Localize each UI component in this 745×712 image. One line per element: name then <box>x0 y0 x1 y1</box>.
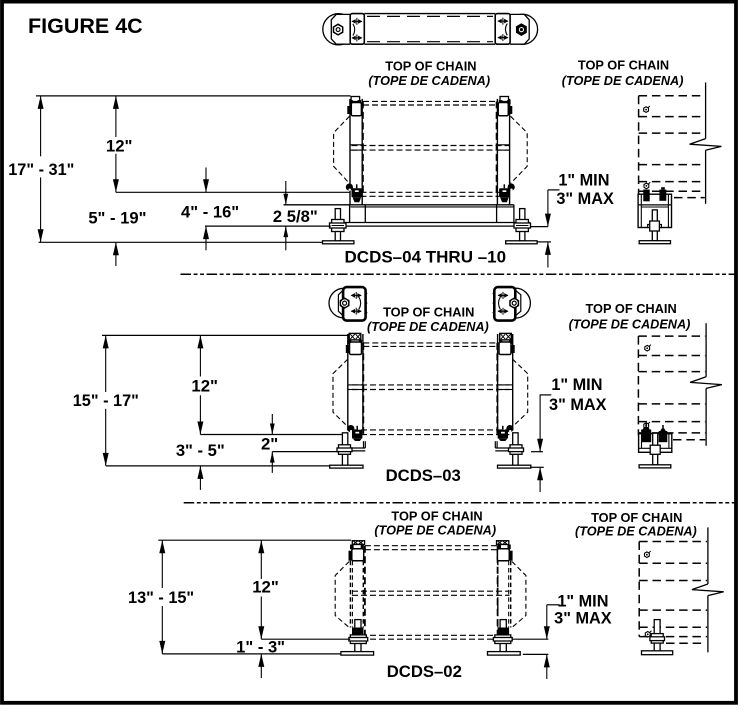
svg-text:(TOPE DE CADENA): (TOPE DE CADENA) <box>374 524 496 538</box>
side view mounting foot (section 1) <box>638 182 671 243</box>
svg-text:12": 12" <box>191 376 218 395</box>
right post (section 2) <box>498 334 513 431</box>
svg-text:1" MIN: 1" MIN <box>557 592 608 610</box>
svg-text:3" MAX: 3" MAX <box>556 190 614 208</box>
phantom wing left (section 2) <box>333 359 348 427</box>
top view clamp right (DCDS-03) <box>493 287 531 321</box>
svg-text:(TOPE DE CADENA): (TOPE DE CADENA) <box>368 74 490 88</box>
right post (section 3, hidden lines) <box>498 561 511 628</box>
left post (section 2) <box>348 334 363 431</box>
svg-text:12": 12" <box>252 578 279 597</box>
wall line with break (section 1) <box>690 83 722 204</box>
screw marker (section 2 side) <box>645 345 651 351</box>
phantom pan outline (section 1, dashed) <box>352 101 510 197</box>
svg-text:(TOPE DE CADENA): (TOPE DE CADENA) <box>575 524 697 538</box>
screw marker lower (section 3 side) <box>645 631 651 637</box>
side view pan (section 3, dashed) <box>639 542 707 644</box>
dimension 1in MIN 3in MAX (section 2) <box>530 376 606 492</box>
bottom clamp right (section 2) <box>498 425 514 441</box>
svg-text:4" - 16": 4" - 16" <box>181 203 239 222</box>
svg-text:1" - 3": 1" - 3" <box>236 637 285 656</box>
dimension 4in-16in (section 1) <box>181 168 331 251</box>
phantom pan outline (section 3, dashed) <box>352 546 510 640</box>
top clamp right (section 2) <box>499 333 515 354</box>
foot bracket left (section 2) <box>339 441 366 451</box>
svg-text:3" MAX: 3" MAX <box>554 610 612 628</box>
svg-text:FIGURE 4C: FIGURE 4C <box>28 14 143 38</box>
phantom wing left (section 1) <box>334 116 350 183</box>
svg-text:17" - 31": 17" - 31" <box>8 161 74 179</box>
jack foot left (section 3) <box>341 620 374 656</box>
dimension 12in (section 3) <box>252 540 279 639</box>
svg-text:TOP OF CHAIN: TOP OF CHAIN <box>391 509 482 524</box>
top view: conveyor section DCDS-04 (plan) <box>323 14 538 45</box>
svg-text:2": 2" <box>261 435 278 454</box>
svg-text:DCDS–02: DCDS–02 <box>387 662 462 681</box>
jack foot right (section 1) <box>506 209 537 244</box>
bottom clamp right (section 1) <box>499 184 515 203</box>
top view clamp left (DCDS-03) <box>329 287 367 321</box>
svg-text:TOP OF CHAIN: TOP OF CHAIN <box>383 305 474 320</box>
floor line (section 3) <box>162 653 341 655</box>
svg-text:15" - 17": 15" - 17" <box>73 392 139 410</box>
dimension 12in (section 1) <box>106 96 133 192</box>
svg-text:3" MAX: 3" MAX <box>549 396 607 414</box>
svg-text:DCDS–03: DCDS–03 <box>386 466 461 485</box>
svg-text:DCDS–04 THRU –10: DCDS–04 THRU –10 <box>345 248 507 267</box>
svg-text:(TOPE DE CADENA): (TOPE DE CADENA) <box>562 74 684 88</box>
side view mounting foot (section 2) <box>639 422 672 468</box>
phantom wing right (section 2) <box>513 359 528 427</box>
svg-text:2 5/8": 2 5/8" <box>273 207 318 226</box>
svg-text:12": 12" <box>106 137 133 156</box>
dimension 15in-17in (section 2) <box>73 335 139 466</box>
svg-text:1" MIN: 1" MIN <box>558 171 609 189</box>
top clamp right (section 3) <box>497 541 513 561</box>
dimension 2 5-8in (section 1) <box>273 181 318 250</box>
svg-text:(TOPE DE CADENA): (TOPE DE CADENA) <box>367 320 489 334</box>
side view pan (section 2, dashed) <box>638 336 705 440</box>
phantom wing right (section 3) <box>512 562 526 628</box>
dimension 13in-15in (section 3) <box>128 540 194 654</box>
dimension 12in (section 2) <box>191 335 218 434</box>
svg-text:3" - 5": 3" - 5" <box>176 441 225 460</box>
top clamp right (section 1) <box>498 97 512 116</box>
leader: bottom of chain line (section 2) <box>200 434 342 436</box>
section separator 1 (dash-dot) <box>181 273 738 275</box>
leader: top of chain line (section 1) <box>36 95 351 97</box>
dimension 17in-31in (section 1) <box>8 96 74 242</box>
leader: bottom of chain line (section 1) <box>116 191 350 193</box>
dimension 1in MIN 3in MAX (section 3) <box>512 592 612 679</box>
dimension 1in MIN 3in MAX (section 1) <box>531 171 614 267</box>
phantom pan outline (section 2, dashed) <box>352 343 509 435</box>
jack foot right (section 3) <box>488 620 521 656</box>
top clamp left (section 2) <box>346 333 362 354</box>
screw marker upper (section 3 side) <box>645 551 651 557</box>
left post (section 3, hidden lines) <box>350 561 363 628</box>
left post (section 1) <box>350 99 362 205</box>
phantom wing left (section 3) <box>335 562 349 628</box>
dimension 5in-19in (section 1) <box>88 209 146 267</box>
leader: top of chain line (section 3) <box>158 539 351 541</box>
side view mounting foot (section 3) <box>642 620 673 655</box>
section separator 2 (dash-dot) <box>184 502 737 504</box>
leader: top of chain line (section 2) <box>102 334 349 336</box>
foot bracket right (section 2) <box>495 441 522 451</box>
svg-text:TOP OF CHAIN: TOP OF CHAIN <box>385 59 476 74</box>
dimension 3in-5in (section 2) <box>176 441 225 490</box>
bottom clamp left (section 2) <box>347 425 362 441</box>
jack foot left (section 2) <box>330 433 363 468</box>
screw marker (section 1 side) <box>644 106 650 112</box>
svg-text:(TOPE DE CADENA): (TOPE DE CADENA) <box>569 317 691 331</box>
top clamp left (section 1) <box>347 97 361 116</box>
wall line with break (section 3) <box>692 527 724 652</box>
svg-text:13" - 15": 13" - 15" <box>128 589 194 607</box>
floor line (section 1) <box>39 241 323 243</box>
leader: bottom of pan line (section 3) <box>261 638 350 640</box>
wall line with break (section 2) <box>690 323 722 446</box>
cross channel (section 1) <box>284 205 530 226</box>
top clamp left (section 3) <box>349 541 365 561</box>
bottom clamp left (section 1) <box>346 184 362 203</box>
dimension 1in-3in (section 3) <box>236 637 285 678</box>
right post (section 1) <box>497 99 509 205</box>
jack foot right (section 2) <box>498 433 531 468</box>
jack foot left (section 1) <box>323 209 354 244</box>
phantom wing right (section 1) <box>511 116 528 183</box>
side view pan (section 1, dashed) <box>639 96 705 198</box>
svg-text:TOP OF CHAIN: TOP OF CHAIN <box>591 510 682 525</box>
svg-text:TOP OF CHAIN: TOP OF CHAIN <box>578 58 669 73</box>
floor line (section 2) <box>106 465 330 467</box>
svg-text:TOP OF CHAIN: TOP OF CHAIN <box>585 301 676 316</box>
dimension 2in (section 2) <box>261 414 339 473</box>
svg-text:5" - 19": 5" - 19" <box>88 209 146 228</box>
svg-text:1" MIN: 1" MIN <box>551 376 602 394</box>
